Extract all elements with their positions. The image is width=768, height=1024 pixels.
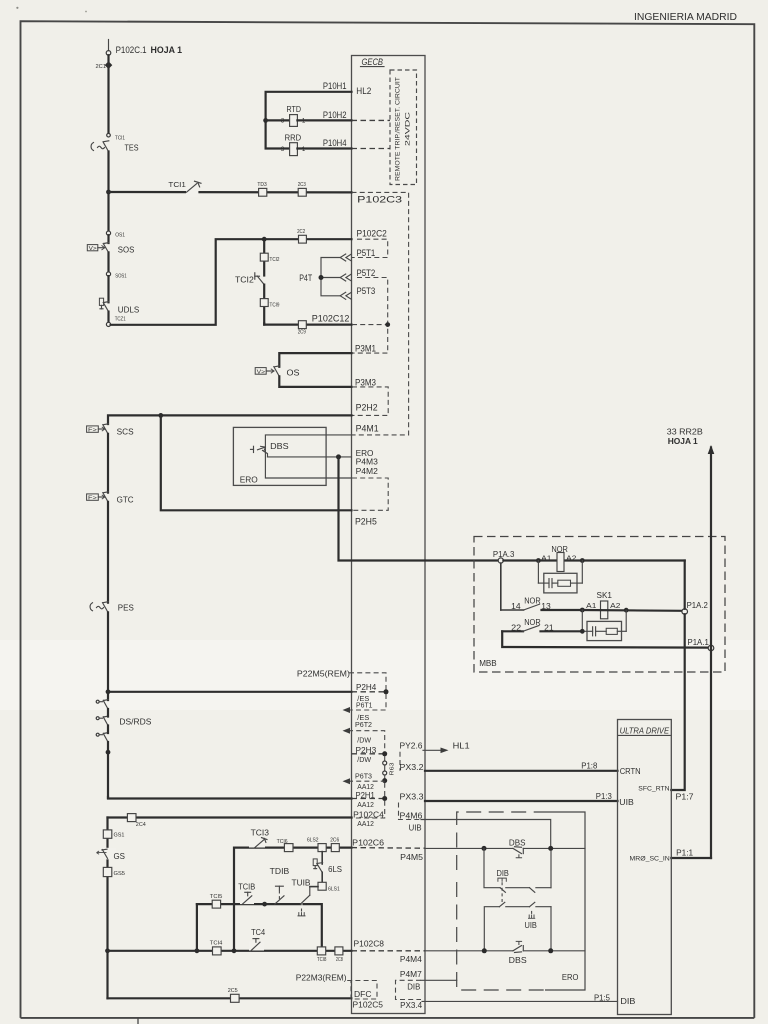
- junction dot TCI2 branch: [262, 237, 267, 242]
- svg-text:AA12: AA12: [357, 819, 374, 828]
- transistor DBS (bottom): [513, 941, 585, 952]
- fuse 6LS2: [307, 838, 326, 852]
- wire TES to TCI1 row junction: [107, 152, 109, 234]
- svg-text:TCI1: TCI1: [115, 135, 125, 141]
- switch TDIB: [275, 886, 284, 904]
- wire P3M1 row: [279, 353, 351, 367]
- wire RRD to GECB: [297, 147, 351, 149]
- svg-text:F>: F>: [88, 428, 97, 434]
- node SOS1 circle: [106, 272, 110, 276]
- junction dot TCI1 row: [106, 190, 111, 195]
- svg-text:P2H5: P2H5: [355, 516, 377, 526]
- svg-text:GS1: GS1: [114, 833, 125, 839]
- switch TC4: [249, 939, 264, 951]
- switch GTC: [87, 492, 109, 502]
- svg-text:DIB: DIB: [497, 868, 510, 878]
- wire 2C1 to TES: [107, 69, 109, 134]
- chevron P5T2: [340, 274, 351, 281]
- svg-text:DIB: DIB: [620, 996, 635, 1006]
- switch TCI3: [249, 838, 267, 848]
- dash link P6T1 arrow: [343, 694, 387, 713]
- jumper R63: [383, 756, 387, 779]
- wire P1A.2 to SFC_RTN: [671, 614, 684, 790]
- transistor DBS (top): [513, 847, 585, 858]
- dash link P6T3 to P2H1: [384, 783, 386, 797]
- switch TCI1: [186, 181, 201, 197]
- wire UDLS chain to P102C2 row: [111, 239, 265, 325]
- svg-text:UIB: UIB: [619, 797, 634, 807]
- wire SOS1 to UDLS: [107, 276, 109, 302]
- wire P102C4 row with fuse 2C4: [108, 816, 352, 818]
- svg-text:2C8: 2C8: [336, 957, 343, 963]
- wire 6LS to 6LS1: [321, 872, 323, 882]
- svg-text:GS: GS: [114, 851, 126, 861]
- svg-text:TCI2: TCI2: [270, 257, 280, 263]
- svg-text:RTD: RTD: [287, 105, 302, 114]
- svg-text:P102C8: P102C8: [354, 938, 385, 948]
- svg-text:NOR: NOR: [524, 618, 541, 627]
- svg-text:P2H2: P2H2: [356, 403, 378, 413]
- node P1A.3 circle: [498, 558, 503, 563]
- switch TCI2: [255, 273, 264, 285]
- wire NOR contact 22-21 row: [502, 626, 580, 632]
- wire TCIB row: [197, 903, 301, 905]
- svg-text:P22M3(REM): P22M3(REM): [296, 973, 347, 983]
- switch TCIB: [240, 892, 254, 904]
- svg-text:DFC: DFC: [354, 989, 372, 999]
- wire P3M3 row: [279, 376, 351, 387]
- resistor RRD: [281, 133, 306, 155]
- svg-text:2C2: 2C2: [297, 229, 305, 235]
- svg-text:A1: A1: [541, 554, 551, 563]
- svg-text:P1:5: P1:5: [594, 992, 610, 1002]
- switch DS/RDS 1: [96, 700, 108, 709]
- connector 2C1 diamond: [105, 61, 113, 69]
- svg-text:SFC_RTN: SFC_RTN: [638, 786, 670, 793]
- wire SOS to SOS1: [107, 252, 109, 272]
- svg-text:V>: V>: [257, 370, 265, 376]
- svg-text:DBS: DBS: [509, 955, 527, 965]
- svg-text:P4M7: P4M7: [400, 969, 422, 979]
- svg-text:P10H1: P10H1: [323, 81, 347, 91]
- junction dot P2H3: [382, 751, 387, 756]
- wire P2H5 row: [161, 415, 352, 510]
- wire P102C2 row: [264, 238, 351, 240]
- dash link PY2.6 to PX3.2: [399, 752, 401, 771]
- switch UDLS: [99, 298, 109, 311]
- wire DIB row (row1): [484, 848, 551, 892]
- svg-text:REMOTE TRIP./RESET. CIRCUIT: REMOTE TRIP./RESET. CIRCUIT: [395, 77, 402, 181]
- junction dot NOR A1: [536, 558, 541, 563]
- internal dash P5T2-P102C12-P3M1: [352, 278, 388, 354]
- svg-text:2C5: 2C5: [228, 988, 238, 994]
- svg-text:TCI5: TCI5: [210, 894, 223, 900]
- svg-text:P5T1: P5T1: [357, 248, 376, 258]
- GECB label: [361, 57, 385, 67]
- wire RTD row P10H2: [266, 119, 290, 121]
- fuse 2C5: [228, 988, 239, 1003]
- svg-text:6LS2: 6LS2: [307, 838, 319, 844]
- svg-text:NOR: NOR: [524, 596, 541, 605]
- junction dot P4M3/MBB feed: [336, 454, 341, 459]
- svg-text:TCI4: TCI4: [210, 941, 223, 947]
- svg-text:P1:3: P1:3: [596, 791, 612, 801]
- remote trip/reset circuit label: [395, 77, 412, 181]
- svg-text:PES: PES: [118, 603, 134, 613]
- scan speck: [85, 11, 87, 13]
- wire entry to 2C1: [107, 55, 109, 61]
- node P1A.2 circle: [682, 609, 688, 615]
- svg-text:HL2: HL2: [356, 86, 371, 96]
- dash link P6T2 arrow: [343, 728, 385, 752]
- wire P2H1 row: [108, 797, 352, 799]
- switch 6LS: [313, 859, 322, 872]
- transistor DBS (ERO box): [251, 446, 268, 457]
- svg-text:HOJA 1: HOJA 1: [151, 45, 183, 55]
- wire 6LS drop: [321, 852, 323, 864]
- svg-text:P6T2: P6T2: [355, 720, 372, 729]
- wire 33 RR2B riser: [710, 448, 712, 859]
- fuse TCI8: [317, 947, 326, 963]
- junction dot P2H1: [382, 796, 387, 801]
- svg-text:P102C5: P102C5: [353, 1000, 384, 1010]
- wire P4M6 rail: [421, 820, 551, 847]
- actuator DIB: [498, 878, 506, 902]
- fuse 2C3: [298, 182, 307, 196]
- svg-text:P1:1: P1:1: [676, 847, 693, 857]
- wire P4M1 row: [265, 435, 351, 447]
- wire TUIB upper link: [310, 886, 318, 888]
- junction dot TCIB/TDIB: [262, 902, 267, 907]
- junction dot SK1 A2: [624, 608, 629, 613]
- svg-text:TCZ1: TCZ1: [115, 317, 126, 323]
- relay coil NOR: [541, 545, 576, 572]
- svg-text:SCS: SCS: [117, 426, 134, 436]
- svg-text:6LS1: 6LS1: [328, 886, 340, 892]
- svg-text:P4T: P4T: [299, 273, 312, 283]
- wire UIB row (row2): [484, 902, 551, 951]
- switch OS: [255, 366, 280, 377]
- fuse 2C8: [335, 947, 343, 963]
- svg-text:F>: F>: [88, 496, 97, 502]
- wire TCIB cluster left vertical: [196, 904, 198, 951]
- wire TCI3 row / P102C6: [234, 848, 352, 951]
- svg-text:TCI8: TCI8: [317, 957, 326, 963]
- wire TC4 row / P102C8: [108, 950, 352, 952]
- junction dot P6T3: [382, 778, 387, 783]
- pin dash P102C8 to P4M4: [352, 950, 426, 952]
- node P4T bracket: [321, 258, 340, 296]
- junction dot P2H4 internal: [384, 689, 389, 694]
- wire PX3.3 to UIB P1:3: [425, 800, 618, 802]
- svg-text:P10H2: P10H2: [323, 110, 347, 120]
- svg-text:TC4: TC4: [251, 927, 265, 937]
- svg-text:2C9: 2C9: [298, 329, 306, 335]
- junction dot DBS bottom right: [548, 948, 553, 953]
- svg-text:AA12: AA12: [357, 800, 374, 809]
- dash link P6T3 arrow: [343, 778, 385, 784]
- svg-text:2C1: 2C1: [96, 64, 107, 70]
- wire ERO P4M3 row: [268, 456, 352, 458]
- svg-text:P5T3: P5T3: [357, 286, 376, 296]
- svg-text:P6T3: P6T3: [355, 771, 372, 780]
- fuse TD3: [257, 182, 266, 196]
- junction dot DBS top right: [548, 846, 553, 851]
- svg-text:UIB: UIB: [525, 920, 538, 930]
- svg-text:TCI1: TCI1: [168, 180, 186, 189]
- svg-text:GTC: GTC: [117, 494, 134, 504]
- svg-text:P4M2: P4M2: [356, 466, 378, 476]
- svg-text:DBS: DBS: [270, 441, 289, 451]
- svg-text:P3M3: P3M3: [355, 377, 376, 387]
- svg-text:DS/RDS: DS/RDS: [119, 716, 151, 726]
- svg-text:TCI3: TCI3: [251, 828, 270, 838]
- label ULTRA DRIVE: [619, 727, 671, 736]
- svg-text:2C3: 2C3: [298, 182, 306, 188]
- svg-text:P4M5: P4M5: [400, 852, 423, 862]
- wire MBB bottom rail to P1A.1: [502, 631, 708, 647]
- svg-text:ERO: ERO: [240, 475, 258, 485]
- svg-text:PY2.6: PY2.6: [400, 741, 423, 751]
- junction dot GS/TC4 row: [105, 948, 110, 953]
- internal dash P3M3 to P2H2: [352, 387, 388, 416]
- fuse TCI2: [260, 253, 279, 263]
- wire GS chain vertical: [106, 818, 108, 999]
- svg-text:P1:8: P1:8: [581, 761, 597, 771]
- wire P1A.2 vertical corner: [684, 561, 686, 609]
- svg-text:13: 13: [541, 602, 551, 611]
- svg-text:R63: R63: [390, 763, 396, 776]
- dash link PX3.3 to P4M6: [399, 803, 422, 820]
- svg-text:TCI6: TCI6: [277, 839, 288, 845]
- wire SK1 A2 to P1A.2: [582, 609, 682, 612]
- svg-text:TCI9: TCI9: [270, 303, 280, 309]
- relay coil SK1: [586, 591, 620, 619]
- svg-text:P4M1: P4M1: [356, 423, 379, 433]
- internal dash P102C2 to P5T1: [352, 239, 388, 257]
- fuse TCI6: [277, 839, 293, 852]
- wire P2H2 row: [108, 415, 352, 424]
- dash link P2H1 to P102C4: [352, 801, 385, 818]
- svg-text:DBS: DBS: [509, 838, 526, 848]
- box ERO (P4M1 area): [233, 427, 326, 485]
- svg-text:P102C.1: P102C.1: [116, 45, 147, 55]
- svg-text:P102C3: P102C3: [357, 195, 402, 205]
- switch SOS: [87, 235, 109, 252]
- svg-text:P1A.2: P1A.2: [687, 600, 708, 610]
- svg-text:21: 21: [544, 623, 554, 632]
- box DFC dashed: [347, 981, 377, 1000]
- svg-text:UIB: UIB: [409, 822, 422, 832]
- junction dot RTD feed: [263, 118, 268, 123]
- svg-text:14: 14: [511, 602, 521, 611]
- switch PES: [90, 602, 108, 613]
- label P102C.1 HOJA 1: [116, 45, 182, 55]
- snubber SK1: [582, 610, 626, 641]
- bottom border line: [21, 1017, 755, 1019]
- svg-text:TCI2: TCI2: [235, 274, 254, 284]
- svg-text:DIB: DIB: [407, 981, 420, 991]
- svg-text:P5T2: P5T2: [357, 268, 376, 278]
- svg-text:P4M4: P4M4: [400, 954, 422, 964]
- svg-text:CRTN: CRTN: [620, 766, 641, 776]
- wire MBB feed vertical: [339, 457, 501, 561]
- box MBB dashed: [474, 537, 725, 673]
- fuse 2C2: [297, 229, 306, 243]
- svg-text:P2H4: P2H4: [356, 682, 376, 692]
- svg-text:TUIB: TUIB: [292, 878, 311, 888]
- svg-text:/DW: /DW: [357, 755, 371, 764]
- svg-text:OS1: OS1: [115, 233, 125, 239]
- switch DS/RDS 2: [96, 716, 108, 725]
- actuator UIB: [528, 909, 535, 919]
- svg-text:P102C6: P102C6: [352, 837, 384, 847]
- svg-text:A2: A2: [566, 554, 576, 563]
- switch TES: [91, 141, 109, 152]
- junction dot TCIB/TC4: [195, 948, 200, 953]
- fuse 2C9: [298, 321, 307, 336]
- svg-text:UDLS: UDLS: [118, 304, 140, 314]
- svg-text:P10H4: P10H4: [323, 138, 347, 148]
- pin dash P2H1: [352, 798, 383, 800]
- junction dot P4T: [319, 275, 324, 280]
- wire P4M7 to ERO enclosure: [421, 979, 457, 981]
- pin dash P10H4: [352, 148, 391, 150]
- node P102C.1 entry stub: [108, 40, 110, 51]
- pin dash P102C6 to P4M5: [352, 847, 426, 850]
- wire P1A.3 row to corner: [503, 559, 684, 561]
- svg-text:P1A.3: P1A.3: [493, 549, 515, 559]
- svg-text:P102C2: P102C2: [357, 229, 387, 239]
- node TCZ1 circle: [106, 322, 110, 326]
- switch TUIB: [298, 887, 310, 916]
- svg-text:3: 3: [281, 146, 285, 153]
- internal dash stub P102C12: [352, 324, 388, 326]
- junction dot P2H4: [106, 689, 111, 694]
- wire TUIB to TCI8 drop: [304, 904, 322, 947]
- svg-text:P1:7: P1:7: [676, 791, 694, 801]
- box ULTRA DRIVE: [618, 720, 672, 1015]
- junction dot DS/RDS bottom: [106, 750, 111, 755]
- svg-text:P6T1: P6T1: [356, 701, 373, 710]
- fuse TCI9: [260, 299, 279, 309]
- svg-text:PX3.2: PX3.2: [400, 762, 424, 772]
- wire P4M2 row: [265, 447, 351, 478]
- svg-text:22: 22: [511, 623, 521, 632]
- switch SCS: [87, 424, 109, 434]
- wire GTC to PES: [107, 502, 109, 603]
- svg-text:P102C12: P102C12: [312, 314, 350, 324]
- junction dot TCI3/TC4: [232, 948, 237, 953]
- svg-text:P22M5(REM): P22M5(REM): [297, 668, 350, 678]
- wire DS/RDS chain segments: [107, 709, 109, 798]
- node P102C.1 terminal circle: [106, 51, 111, 56]
- wire TCI1 row: [109, 191, 352, 194]
- svg-text:2C4: 2C4: [136, 822, 146, 828]
- svg-text:3: 3: [281, 118, 285, 125]
- wire HL2 P10H1: [266, 92, 352, 149]
- switch GS: [97, 848, 117, 860]
- remote trip/reset circuit dashed box: [390, 70, 417, 185]
- wire P102C12 row: [264, 324, 351, 325]
- svg-text:MRØ_SC_IN: MRØ_SC_IN: [630, 855, 671, 862]
- svg-text:TCIB: TCIB: [238, 882, 255, 892]
- fuse TCI5: [210, 894, 223, 908]
- wire SCS to GTC: [107, 434, 109, 493]
- resistor RTD: [281, 105, 306, 126]
- fuse 2C4: [127, 814, 145, 828]
- contact 6LS1: [318, 882, 340, 892]
- contact GS1: [103, 830, 124, 839]
- svg-text:SK1: SK1: [597, 591, 613, 600]
- wire PX3.4 to DIB P1:5: [422, 1000, 618, 1002]
- svg-text:HL1: HL1: [453, 741, 470, 751]
- fuse 2C6: [330, 838, 339, 852]
- svg-text:INGENIERIA MADRID: INGENIERIA MADRID: [634, 11, 737, 23]
- svg-text:A2: A2: [610, 601, 620, 610]
- svg-text:A1: A1: [586, 601, 596, 610]
- svg-text:TDIB: TDIB: [270, 866, 290, 876]
- pin dash P2H4: [352, 691, 387, 693]
- svg-text:ERO: ERO: [562, 972, 579, 982]
- wire RTD to GECB: [297, 119, 351, 121]
- svg-text:P4M6: P4M6: [400, 811, 423, 821]
- junction dot NOR A2: [580, 558, 585, 563]
- chevron P5T3: [340, 292, 351, 299]
- svg-text:NOR: NOR: [551, 545, 568, 554]
- pin dash P2H3 stub: [352, 753, 383, 755]
- wire UDLS to bottom node: [107, 312, 109, 323]
- junction dot internal P102C12: [385, 322, 390, 327]
- svg-text:HOJA 1: HOJA 1: [668, 436, 698, 446]
- svg-text:ULTRA DRIVE: ULTRA DRIVE: [620, 727, 670, 736]
- contact GS5: [103, 867, 125, 877]
- svg-text:/DW: /DW: [357, 736, 371, 745]
- dash link P22M5(REM): [349, 673, 386, 690]
- snubber NOR: [538, 561, 582, 593]
- wire P4M4 row DBS bridge bottom: [425, 950, 513, 952]
- svg-text:V>: V>: [89, 246, 97, 252]
- wire P4M5 row DBS bridge top: [425, 847, 513, 849]
- svg-text:PX3.3: PX3.3: [400, 791, 424, 801]
- svg-text:SOS1: SOS1: [115, 273, 127, 279]
- svg-text:P1A.1: P1A.1: [688, 637, 709, 647]
- junction dot 21 to snubber: [580, 629, 585, 634]
- wire HL1 arrow: [423, 748, 449, 754]
- wire TCI2 to TCI9: [263, 285, 265, 325]
- switch DS/RDS 3: [96, 733, 108, 742]
- svg-text:GECB: GECB: [362, 57, 384, 67]
- svg-text:OS: OS: [287, 368, 300, 378]
- wire P2H4 row: [108, 691, 352, 693]
- svg-text:PX3.4: PX3.4: [400, 1000, 422, 1010]
- junction dot DBS top left: [482, 846, 487, 851]
- node TCI1 circle: [107, 133, 111, 137]
- internal dash P4M2 to P2H5: [352, 478, 388, 510]
- svg-text:2C6: 2C6: [330, 838, 339, 844]
- wire PX3.2 to CRTN P1:8: [425, 770, 618, 772]
- svg-text:MBB: MBB: [479, 658, 497, 668]
- chevron P5T1: [340, 254, 351, 261]
- svg-text:24VDC: 24VDC: [405, 111, 412, 146]
- junction dot SK1 A1: [580, 608, 585, 613]
- wire MRO_SC_IN row: [671, 857, 711, 859]
- junction dot P2H2/P2H5: [158, 413, 163, 418]
- wire PES to P2H4 junction: [107, 612, 109, 700]
- junction dot DBS bottom left: [482, 948, 487, 953]
- arrowhead 33 RR2B: [708, 445, 715, 454]
- svg-text:33 RR2B: 33 RR2B: [667, 426, 703, 436]
